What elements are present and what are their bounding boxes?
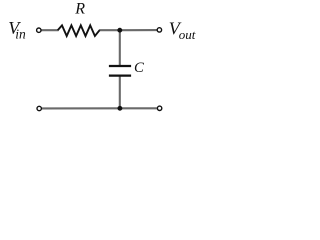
wire: bottom rail [42, 107, 157, 109]
terminal: Vin open circle (top-left) [37, 28, 41, 32]
svg-text:Vin: Vin [8, 18, 26, 42]
wire: capacitor bottom plate down to bottom rail [119, 76, 121, 108]
terminal: bottom-right open circle [157, 106, 161, 110]
junction dot: top node [117, 28, 122, 33]
terminal: bottom-left open circle [37, 106, 41, 110]
capacitor C bottom plate [109, 74, 131, 76]
svg-text:C: C [134, 60, 144, 76]
wire: resistor to Vout terminal [99, 29, 157, 31]
wire: Vin terminal to resistor [42, 29, 59, 31]
resistor R zigzag [58, 25, 100, 36]
junction dot: bottom node [117, 106, 122, 111]
capacitor C top plate [109, 65, 131, 67]
svg-text:Vout: Vout [169, 19, 196, 42]
terminal: Vout open circle (top-right) [157, 28, 161, 32]
svg-text:R: R [74, 1, 85, 18]
wire: top junction down to capacitor top plate [119, 30, 121, 65]
